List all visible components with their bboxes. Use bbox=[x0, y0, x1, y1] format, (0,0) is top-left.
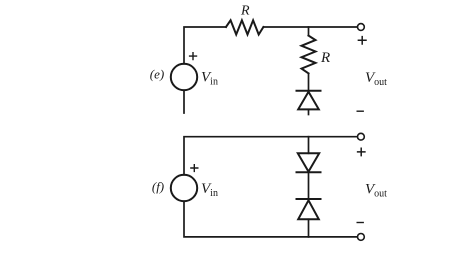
wire: top rail from R1 to output terminal (e) bbox=[263, 26, 356, 28]
voltage source V1 (circuit e) bbox=[171, 64, 197, 90]
wire: shunt branch top (e) bbox=[308, 27, 310, 36]
label + output (f) bbox=[358, 148, 365, 155]
output terminal (f) minus bbox=[358, 234, 365, 241]
resistor R2 (shunt, vertical) bbox=[302, 36, 316, 74]
wire: diode branch top (f) bbox=[308, 137, 310, 154]
diode D3 (cathode up) bbox=[297, 198, 321, 200]
svg-text:Vout: Vout bbox=[365, 182, 387, 200]
voltage source V2 (circuit f) bbox=[171, 175, 197, 201]
svg-text:R: R bbox=[240, 4, 250, 19]
label + of V1 bbox=[190, 53, 197, 60]
wire: bottom rail (f) bbox=[184, 201, 357, 237]
wire: R2 to diode D1 bbox=[308, 73, 310, 90]
wire: top rail (f) bbox=[184, 137, 357, 175]
svg-text:(e): (e) bbox=[150, 66, 164, 81]
wire: D1 anode stub bbox=[308, 109, 310, 114]
resistor R1 (series, horizontal) bbox=[226, 20, 263, 34]
label + of V2 bbox=[191, 165, 198, 172]
wire: V1 top lead and top-left corner bbox=[184, 27, 226, 113]
label + output (e) bbox=[358, 37, 366, 44]
output terminal (e) plus bbox=[358, 24, 365, 31]
svg-text:Vin: Vin bbox=[201, 70, 218, 88]
label minus output (e) bbox=[357, 110, 363, 112]
diode D2 (cathode down) bbox=[298, 153, 319, 171]
wire: D3 to bottom rail bbox=[308, 219, 310, 237]
svg-text:Vout: Vout bbox=[365, 70, 387, 88]
svg-text:Vin: Vin bbox=[201, 181, 218, 199]
svg-text:R: R bbox=[320, 50, 330, 66]
diode D1 (cathode up) bbox=[297, 90, 321, 92]
wire: between D2 and D3 bbox=[308, 172, 310, 199]
output terminal (f) plus bbox=[358, 133, 365, 140]
label minus output (f) bbox=[357, 222, 363, 224]
svg-text:(f): (f) bbox=[152, 179, 164, 194]
